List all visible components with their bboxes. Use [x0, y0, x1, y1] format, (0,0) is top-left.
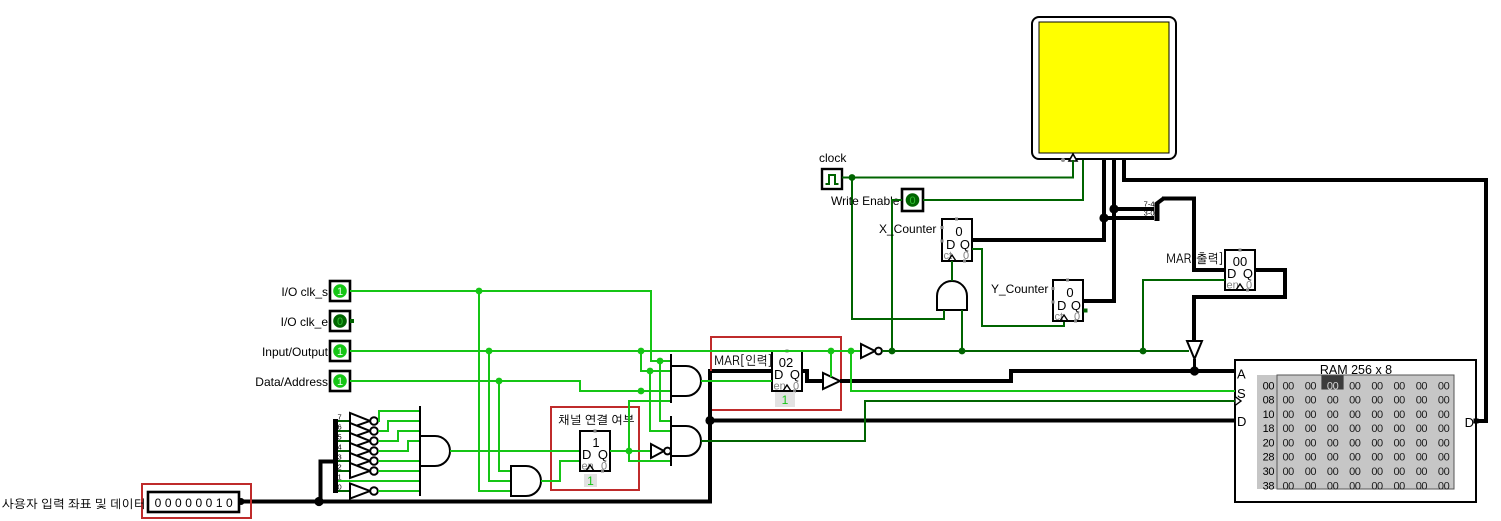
svg-text:00: 00: [1327, 423, 1339, 435]
svg-text:Write Enable: Write Enable: [831, 194, 900, 208]
AND gate 8-input match detect: [420, 406, 450, 496]
svg-text:00: 00: [1327, 380, 1339, 392]
node we join: [889, 348, 896, 355]
svg-text:00: 00: [1394, 480, 1406, 492]
node splitter leg 3-0: [1099, 213, 1108, 222]
svg-text:00: 00: [1305, 437, 1317, 449]
user input label korean: [2, 498, 144, 509]
display clock pin triangle: [1069, 154, 1077, 161]
node bus splitter tap: [314, 497, 323, 506]
wire channel Q out: [610, 450, 651, 452]
wire bit step 441 to 431: [380, 431, 420, 441]
node da mar tap: [638, 388, 645, 395]
svg-text:00: 00: [1283, 480, 1295, 492]
svg-text:00: 00: [1438, 409, 1450, 421]
LED matrix display U1: [1032, 17, 1176, 159]
svg-text:00: 00: [1349, 423, 1361, 435]
svg-text:0: 0: [165, 496, 172, 510]
svg-text:0: 0: [226, 496, 233, 510]
svg-text:00: 00: [1371, 380, 1383, 392]
svg-text:0: 0: [195, 496, 202, 510]
bus X_Counter Q out: [972, 160, 1104, 240]
svg-text:00: 00: [1438, 480, 1450, 492]
node io tap1: [486, 348, 493, 355]
wire io to and gates: [641, 351, 671, 371]
wire clk_s drop: [479, 291, 511, 491]
wire bit step 451 to 441: [380, 441, 420, 451]
svg-text:0: 0: [155, 496, 162, 510]
svg-text:Input/Output: Input/Output: [262, 345, 329, 359]
wire io drop: [489, 351, 511, 481]
svg-text:1: 1: [587, 474, 594, 488]
bus display data to RAM D out: [1124, 160, 1486, 421]
wire and-n left input: [943, 310, 945, 319]
wire WE to display enable: [923, 160, 1083, 200]
wire q up branch: [629, 401, 671, 451]
svg-text:clock: clock: [819, 151, 847, 165]
svg-text:00: 00: [1371, 409, 1383, 421]
svg-text:00: 00: [1283, 452, 1295, 464]
AND gate 3-input channel: [511, 466, 541, 496]
wire bit step 421 to 411: [379, 411, 420, 421]
node clk_s branch: [657, 358, 664, 365]
node clk_s tap: [476, 288, 483, 295]
svg-text:00: 00: [1416, 395, 1428, 407]
svg-text:0: 0: [185, 496, 192, 510]
svg-text:30: 30: [1263, 466, 1275, 478]
wire to RAM S: [851, 351, 1235, 391]
wire splitter bit 6: [338, 430, 350, 432]
wire upper AND out to en: [701, 380, 772, 382]
wire bit step 431 to 421: [380, 421, 420, 431]
svg-text:1: 1: [337, 376, 343, 388]
svg-text:00: 00: [1327, 480, 1339, 492]
svg-text:38: 38: [1263, 480, 1275, 492]
svg-text:00: 00: [1416, 466, 1428, 478]
wire repaint d over selection: [545, 450, 580, 452]
svg-text:00: 00: [1438, 423, 1450, 435]
node bus RAM branch: [705, 416, 714, 425]
svg-text:00: 00: [1305, 452, 1317, 464]
RAM 256x8: [1235, 360, 1476, 502]
svg-text:00: 00: [1327, 395, 1339, 407]
svg-text:00: 00: [1283, 395, 1295, 407]
wire not out: [882, 350, 1189, 352]
inverter bit 2: [350, 463, 370, 478]
splitter user input 8bit: [319, 419, 339, 501]
node channel q: [626, 448, 633, 455]
bus MAR in Q to buffer: [802, 371, 823, 381]
svg-text:18: 18: [1263, 423, 1275, 435]
svg-text:00: 00: [1349, 480, 1361, 492]
probe channel clock: [584, 474, 597, 488]
wire WE left: [892, 200, 902, 351]
wire bit1 direct: [338, 480, 420, 482]
wire da drop: [499, 381, 511, 471]
svg-text:00: 00: [1327, 409, 1339, 421]
svg-text:00: 00: [1371, 395, 1383, 407]
wire clk_s branch and2: [660, 361, 671, 421]
svg-text:00: 00: [1349, 395, 1361, 407]
inverter bit 7: [350, 413, 370, 428]
svg-text:00: 00: [1394, 409, 1406, 421]
svg-text:0: 0: [337, 316, 343, 328]
svg-text:00: 00: [1416, 409, 1428, 421]
wire Input/Output: [350, 350, 861, 352]
inverter bit 0: [350, 484, 370, 499]
svg-text:08: 08: [1263, 395, 1275, 407]
node user input port: [238, 498, 245, 505]
svg-text:00: 00: [1394, 395, 1406, 407]
svg-text:00: 00: [1305, 480, 1317, 492]
svg-text:00: 00: [1416, 437, 1428, 449]
svg-text:00: 00: [1305, 409, 1317, 421]
wire X carry to Y clock: [972, 249, 1064, 326]
node clk_e stub: [350, 319, 354, 323]
wire big AND out: [450, 450, 580, 452]
node da tap: [496, 378, 503, 385]
node RAM A junction: [1190, 366, 1199, 375]
svg-text:00: 00: [1371, 452, 1383, 464]
svg-text:D: D: [1465, 415, 1474, 430]
node mar out en join: [1140, 348, 1147, 355]
svg-text:00: 00: [1327, 437, 1339, 449]
svg-text:0: 0: [206, 496, 213, 510]
bus MAR out Q loop: [1194, 270, 1285, 341]
svg-text:00: 00: [1349, 380, 1361, 392]
svg-text:00: 00: [1371, 437, 1383, 449]
svg-text:00: 00: [1305, 466, 1317, 478]
svg-text:00: 00: [1438, 466, 1450, 478]
svg-text:00: 00: [1371, 480, 1383, 492]
probe MAR in clock: [775, 392, 795, 407]
inverter bit 4: [350, 443, 370, 458]
svg-text:00: 00: [1327, 452, 1339, 464]
counter Y_Counter: [1052, 279, 1084, 324]
svg-text:Data/Address: Data/Address: [255, 375, 328, 389]
svg-text:D: D: [1237, 414, 1246, 429]
wire splitter bit 4: [338, 450, 350, 452]
AND gate RAM clock: [671, 416, 701, 466]
node andn join: [959, 348, 966, 355]
wire splitter bit 5: [338, 440, 350, 442]
wire and-n output to X clock: [951, 261, 953, 281]
svg-text:00: 00: [1327, 466, 1339, 478]
svg-text:00: 00: [1283, 380, 1295, 392]
svg-text:I/O clk_e: I/O clk_e: [281, 315, 329, 329]
wire splitter bit 7: [338, 420, 350, 422]
svg-text:00: 00: [1349, 409, 1361, 421]
display unconnected pin: [1061, 158, 1065, 162]
svg-text:00: 00: [1305, 423, 1317, 435]
flipflop channel connect: [580, 430, 610, 473]
svg-text:00: 00: [1438, 437, 1450, 449]
svg-text:00: 00: [1349, 466, 1361, 478]
svg-text:28: 28: [1263, 452, 1275, 464]
wire buffer out: [1193, 359, 1196, 371]
clock generator: [822, 169, 842, 189]
wire splitter bit 2: [338, 470, 350, 472]
svg-text:I/O clk_s: I/O clk_s: [281, 285, 328, 299]
buffer MAR in output: [823, 373, 840, 389]
bus repaint over selection: [708, 371, 712, 411]
svg-text:0: 0: [909, 195, 915, 207]
pin user input 8bit: [148, 492, 239, 512]
splitter for display address: [1104, 199, 1164, 222]
svg-text:00: 00: [1394, 380, 1406, 392]
wire and-n right input: [961, 310, 963, 351]
wire repaint en over selection: [545, 480, 560, 482]
Write Enable input pin: [902, 189, 923, 211]
inverter channel q: [651, 444, 664, 458]
AND gate MAR in enable: [671, 354, 701, 403]
bus user input main: [239, 371, 772, 502]
svg-text:00: 00: [1263, 380, 1275, 392]
wire bit straight 471: [380, 470, 420, 472]
wire buffer enable: [830, 351, 832, 377]
register MAR in: [772, 350, 802, 393]
svg-text:3-0: 3-0: [1144, 209, 1155, 218]
svg-text:1: 1: [337, 346, 343, 358]
inverter write enable line: [861, 344, 875, 358]
svg-text:Y_Counter: Y_Counter: [991, 282, 1048, 296]
svg-text:A: A: [1237, 367, 1246, 382]
svg-text:20: 20: [1263, 437, 1275, 449]
svg-text:00: 00: [1394, 466, 1406, 478]
wire clock to display: [852, 160, 1073, 178]
svg-text:1: 1: [337, 286, 343, 298]
svg-text:00: 00: [1394, 452, 1406, 464]
wire MAR out enable: [1143, 280, 1225, 351]
svg-text:1: 1: [782, 393, 789, 407]
node RAM D out port: [1474, 419, 1479, 424]
node clock junction: [849, 174, 856, 181]
svg-text:00: 00: [1438, 395, 1450, 407]
svg-text:00: 00: [1283, 409, 1295, 421]
MAR[inryeok] label: [715, 354, 771, 367]
selection box MAR in: [711, 337, 841, 410]
svg-text:00: 00: [1283, 466, 1295, 478]
node io and branch: [647, 368, 654, 375]
node splitter leg 7-4: [1109, 204, 1118, 213]
node ram s tap: [848, 348, 855, 355]
inverter bit 6: [350, 423, 370, 438]
bus branch to RAM D: [710, 419, 1235, 423]
MAR[chulryeok] label: [1167, 252, 1222, 265]
wire q down branch: [629, 451, 671, 461]
bus Y_Counter Q out: [1083, 160, 1114, 301]
svg-text:0: 0: [175, 496, 182, 510]
wire splitter bit 0: [338, 490, 350, 492]
svg-text:00: 00: [1416, 423, 1428, 435]
wire small AND out: [541, 461, 580, 481]
wire clock down branch: [852, 178, 944, 320]
svg-text:00: 00: [1416, 380, 1428, 392]
svg-text:00: 00: [1305, 395, 1317, 407]
wire Data/Address: [350, 381, 671, 391]
svg-text:00: 00: [1305, 380, 1317, 392]
svg-text:00: 00: [1438, 380, 1450, 392]
selection box channel: [551, 407, 639, 490]
svg-text:00: 00: [1394, 437, 1406, 449]
bus buffer to RAM A: [840, 371, 1235, 381]
controlled buffer to RAM address: [1187, 341, 1202, 359]
wire io branch and2: [650, 371, 671, 431]
register MAR out: [1225, 249, 1255, 292]
svg-text:00: 00: [1283, 437, 1295, 449]
svg-text:00: 00: [1349, 437, 1361, 449]
wire splitter bit 3: [338, 460, 350, 462]
svg-text:00: 00: [1283, 423, 1295, 435]
inverter bit 3: [350, 453, 370, 468]
counter X_Counter: [941, 218, 973, 263]
bus splitter root to MAR out D: [1162, 199, 1225, 271]
svg-text:1: 1: [216, 496, 223, 510]
node io tap2: [638, 348, 645, 355]
svg-text:00: 00: [1349, 452, 1361, 464]
node Y carry stub: [1084, 309, 1088, 313]
svg-text:7-4: 7-4: [1144, 200, 1155, 209]
svg-text:00: 00: [1371, 466, 1383, 478]
node buffer enable tap: [828, 348, 835, 355]
svg-text:00: 00: [1416, 480, 1428, 492]
wire bit straight 461: [380, 460, 420, 462]
svg-text:10: 10: [1263, 409, 1275, 421]
svg-text:X_Counter: X_Counter: [879, 222, 936, 236]
wire bit straight 491: [380, 490, 420, 492]
svg-text:00: 00: [1438, 452, 1450, 464]
inverter bit 5: [350, 433, 370, 448]
wire clock out: [842, 177, 852, 179]
svg-text:00: 00: [1394, 423, 1406, 435]
selection box user input: [142, 484, 251, 518]
wire lower AND out to RAM clock: [701, 401, 1235, 441]
wire clk_s: [350, 291, 671, 361]
svg-text:00: 00: [1416, 452, 1428, 464]
svg-text:00: 00: [1371, 423, 1383, 435]
AND gate clock enable (north): [937, 281, 967, 310]
channel label korean: [559, 414, 634, 425]
